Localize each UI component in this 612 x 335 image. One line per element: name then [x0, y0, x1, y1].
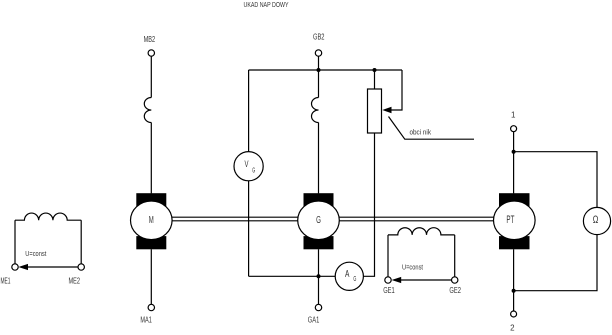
wiper arrow [382, 107, 391, 113]
wire ME2 up lead [80, 220, 82, 263]
wire top bus to voltmeter [248, 70, 250, 152]
wire GE2 up lead [454, 235, 456, 277]
resistor rheostat (load) [368, 89, 382, 133]
svg-text:GE1: GE1 [383, 286, 395, 295]
wire coil to motor M [150, 123, 152, 194]
terminal ME1 [12, 264, 18, 270]
wire GB2 to coil [318, 56, 320, 97]
wire generator G to GA1 [318, 249, 320, 304]
terminal GA1 [315, 304, 321, 310]
coil ME (motor excitation winding) [15, 213, 81, 220]
svg-text:1: 1 [511, 111, 516, 120]
shaft M-G [172, 217, 298, 221]
wire terminal 1 to PT [513, 132, 515, 194]
voltmeter VG [234, 152, 263, 181]
coil MB (commutating winding of M) [144, 98, 151, 123]
node junction rheostat/top bus [373, 68, 377, 72]
svg-text:M: M [149, 214, 154, 226]
svg-text:U=const: U=const [25, 251, 46, 258]
wire MB2 to coil [150, 56, 152, 97]
coil GB (commutating winding of G) [312, 98, 319, 123]
leader line obciaznik [389, 117, 475, 140]
svg-text:PT: PT [506, 214, 514, 226]
svg-text:UKAD NAP DOWY: UKAD NAP DOWY [244, 0, 289, 9]
wire rheostat top to bus [374, 70, 376, 89]
wire ammeter to rheostat bottom [363, 133, 374, 276]
svg-text:G: G [353, 274, 356, 283]
svg-text:G: G [252, 166, 255, 175]
wire motor M to MA1 [150, 249, 152, 304]
terminal MA1 [148, 304, 154, 310]
svg-text:GA1: GA1 [308, 315, 320, 324]
wire PT to terminal 2 [513, 249, 515, 311]
node junction GB2/top bus [317, 68, 321, 72]
svg-text:MB2: MB2 [144, 35, 156, 44]
wire voltmeter to bottom bus [248, 181, 250, 276]
coil GE (generator excitation winding) [388, 228, 455, 235]
svg-text:Ω: Ω [593, 214, 599, 226]
node junction bottom right [512, 289, 516, 293]
wire coil to generator G [318, 123, 320, 194]
wire GE1 up lead [387, 235, 389, 277]
svg-text:GE2: GE2 [449, 286, 461, 295]
wire top right to ohmmeter [514, 152, 597, 208]
terminal GE1 [385, 277, 391, 283]
node junction GA1/bottom bus [317, 274, 321, 278]
shaft G-PT [339, 217, 493, 221]
terminal MB2 [148, 50, 154, 56]
svg-text:ME2: ME2 [69, 277, 81, 286]
terminal 2 [511, 311, 517, 317]
ohmmeter [583, 207, 610, 234]
svg-text:obci nik: obci nik [410, 130, 432, 137]
wire U=const arrow line (ME) [28, 266, 78, 268]
generator G [298, 193, 340, 249]
svg-text:MA1: MA1 [140, 315, 152, 324]
wire U=const arrow line (GE) [401, 279, 451, 281]
svg-text:2: 2 [510, 323, 515, 332]
node junction top right [512, 150, 516, 154]
svg-text:U=const: U=const [402, 265, 423, 272]
svg-text:G: G [316, 214, 321, 226]
wire ME1 up lead [14, 220, 16, 263]
ammeter AG [335, 262, 363, 290]
svg-text:A: A [345, 269, 350, 280]
terminal GB2 [315, 50, 321, 56]
wire bottom bus [249, 275, 336, 277]
motor M [131, 193, 173, 249]
wire bottom right to ohmmeter [514, 235, 597, 291]
terminal ME2 [78, 264, 84, 270]
svg-text:GB2: GB2 [313, 32, 325, 41]
svg-text:V: V [245, 159, 249, 169]
wire wiper branch [391, 70, 402, 110]
terminal 1 [511, 126, 517, 132]
wire top bus [249, 69, 402, 71]
terminal GE2 [452, 277, 458, 283]
svg-text:ME1: ME1 [1, 277, 11, 286]
tachogenerator PT [494, 193, 536, 249]
